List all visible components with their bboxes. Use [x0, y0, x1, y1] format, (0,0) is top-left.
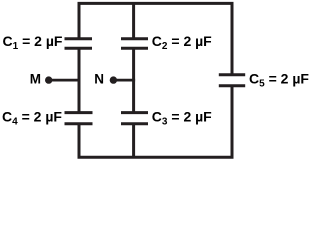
- wire left branch upper segment: [78, 2, 81, 39]
- wire right branch upper segment: [231, 2, 234, 75]
- wire left branch lower segment: [78, 124, 81, 158]
- svg-text:C1 = 2 µF: C1 = 2 µF: [3, 33, 63, 52]
- wire stub to node M: [49, 79, 81, 82]
- svg-text:C2 = 2 µF: C2 = 2 µF: [152, 33, 212, 52]
- svg-text:C5 = 2 µF: C5 = 2 µF: [249, 70, 309, 89]
- wire middle branch upper segment: [132, 2, 135, 39]
- wire top rail: [78, 2, 234, 5]
- svg-text:C4 = 2 µF: C4 = 2 µF: [2, 108, 62, 127]
- capacitor C4: [65, 113, 93, 124]
- wire stub to node N: [113, 79, 135, 82]
- wire left branch middle segment: [78, 48, 81, 112]
- capacitor C3: [121, 113, 148, 124]
- svg-text:C3 = 2 µF: C3 = 2 µF: [152, 108, 212, 127]
- wire middle branch middle segment: [132, 48, 135, 112]
- wire bottom rail: [78, 156, 234, 159]
- wire middle branch lower segment: [132, 124, 135, 158]
- svg-text:M: M: [30, 72, 41, 87]
- capacitor C5: [219, 75, 245, 86]
- node N junction dot: [110, 76, 117, 83]
- wire right branch lower segment: [231, 86, 234, 158]
- capacitor C2: [121, 39, 148, 49]
- node M junction dot: [45, 76, 52, 83]
- svg-text:N: N: [94, 72, 104, 87]
- capacitor C1: [65, 39, 93, 49]
